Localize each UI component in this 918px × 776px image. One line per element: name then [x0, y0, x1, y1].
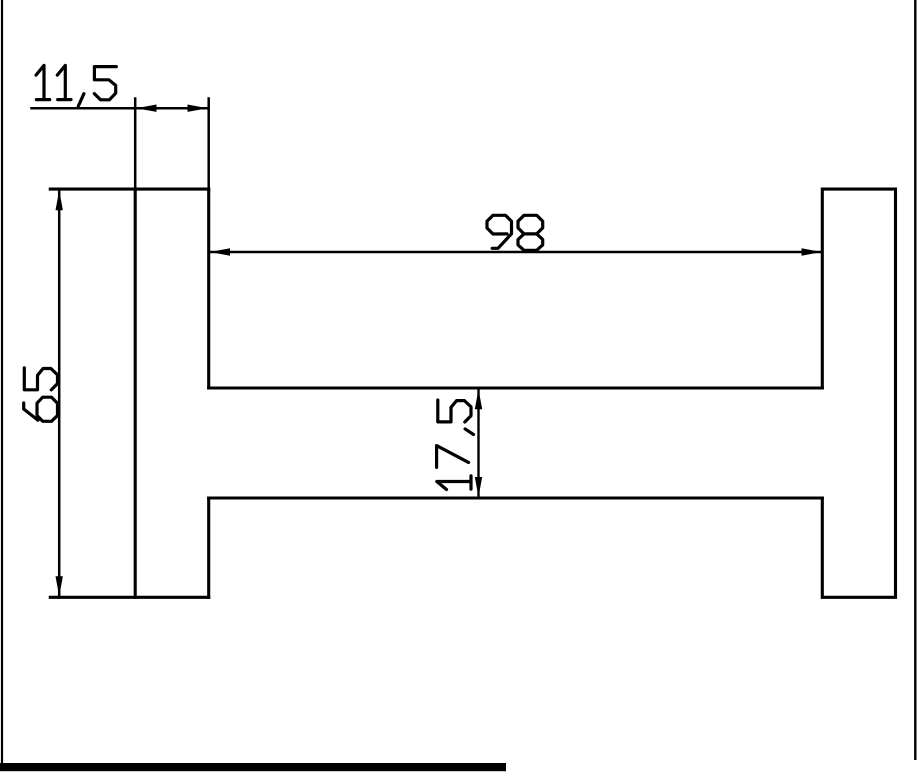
arrowhead 98 left	[210, 248, 230, 255]
dim 65 dimension line	[58, 190, 61, 597]
arrowhead 11,5 left	[136, 105, 156, 112]
profile outline: left flange bottom edge + 65 extension line	[50, 596, 208, 599]
profile outline: web top line	[209, 386, 823, 389]
profile outline: left flange	[135, 189, 209, 597]
page border bottom bar	[0, 763, 506, 771]
dim 11,5 extension line right (x=209)	[207, 99, 210, 190]
text 11,5 digit 1	[57, 65, 71, 99]
text 11,5 digit 5	[94, 67, 116, 100]
text 17,5 comma (rotated)	[465, 429, 473, 435]
arrowhead 98 right	[802, 248, 822, 255]
dim 11,5 extension line left (x=135)	[134, 99, 137, 190]
dim 17,5 dimension line	[477, 389, 479, 497]
text 11,5 comma	[78, 94, 84, 106]
text 65 digit 5 (rotated)	[24, 368, 57, 390]
arrowhead 17,5 up	[475, 389, 482, 409]
profile outline: right flange	[822, 189, 895, 597]
profile outline: web bottom line	[209, 496, 823, 499]
text 17,5 digit 7 (rotated)	[437, 446, 469, 468]
arrowhead 11,5 right	[188, 105, 208, 112]
text 98 digit 8	[518, 215, 543, 250]
arrowhead 65 up	[56, 190, 63, 210]
profile outline: left flange top edge + 65 extension line	[50, 188, 208, 191]
text 17,5 digit 1 (rotated)	[437, 476, 471, 490]
text 98 digit 9	[487, 215, 512, 248]
page border right	[914, 0, 916, 760]
text 11,5 digit 1	[36, 65, 50, 99]
arrowhead 17,5 down	[475, 477, 482, 497]
text 65 digit 6 (rotated)	[24, 397, 58, 421]
dim 98 dimension line	[210, 251, 823, 254]
page border left	[1, 0, 3, 766]
dim 11,5 dimension line	[32, 107, 209, 110]
arrowhead 65 down	[56, 576, 63, 596]
text 17,5 digit 5 (rotated)	[438, 400, 471, 422]
